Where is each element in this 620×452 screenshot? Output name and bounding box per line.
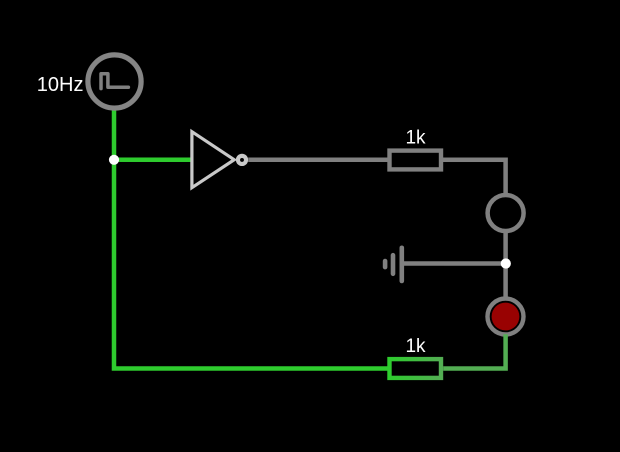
svg-text:1k: 1k bbox=[405, 336, 426, 357]
svg-text:10Hz: 10Hz bbox=[37, 74, 84, 96]
svg-text:1k: 1k bbox=[405, 128, 426, 149]
